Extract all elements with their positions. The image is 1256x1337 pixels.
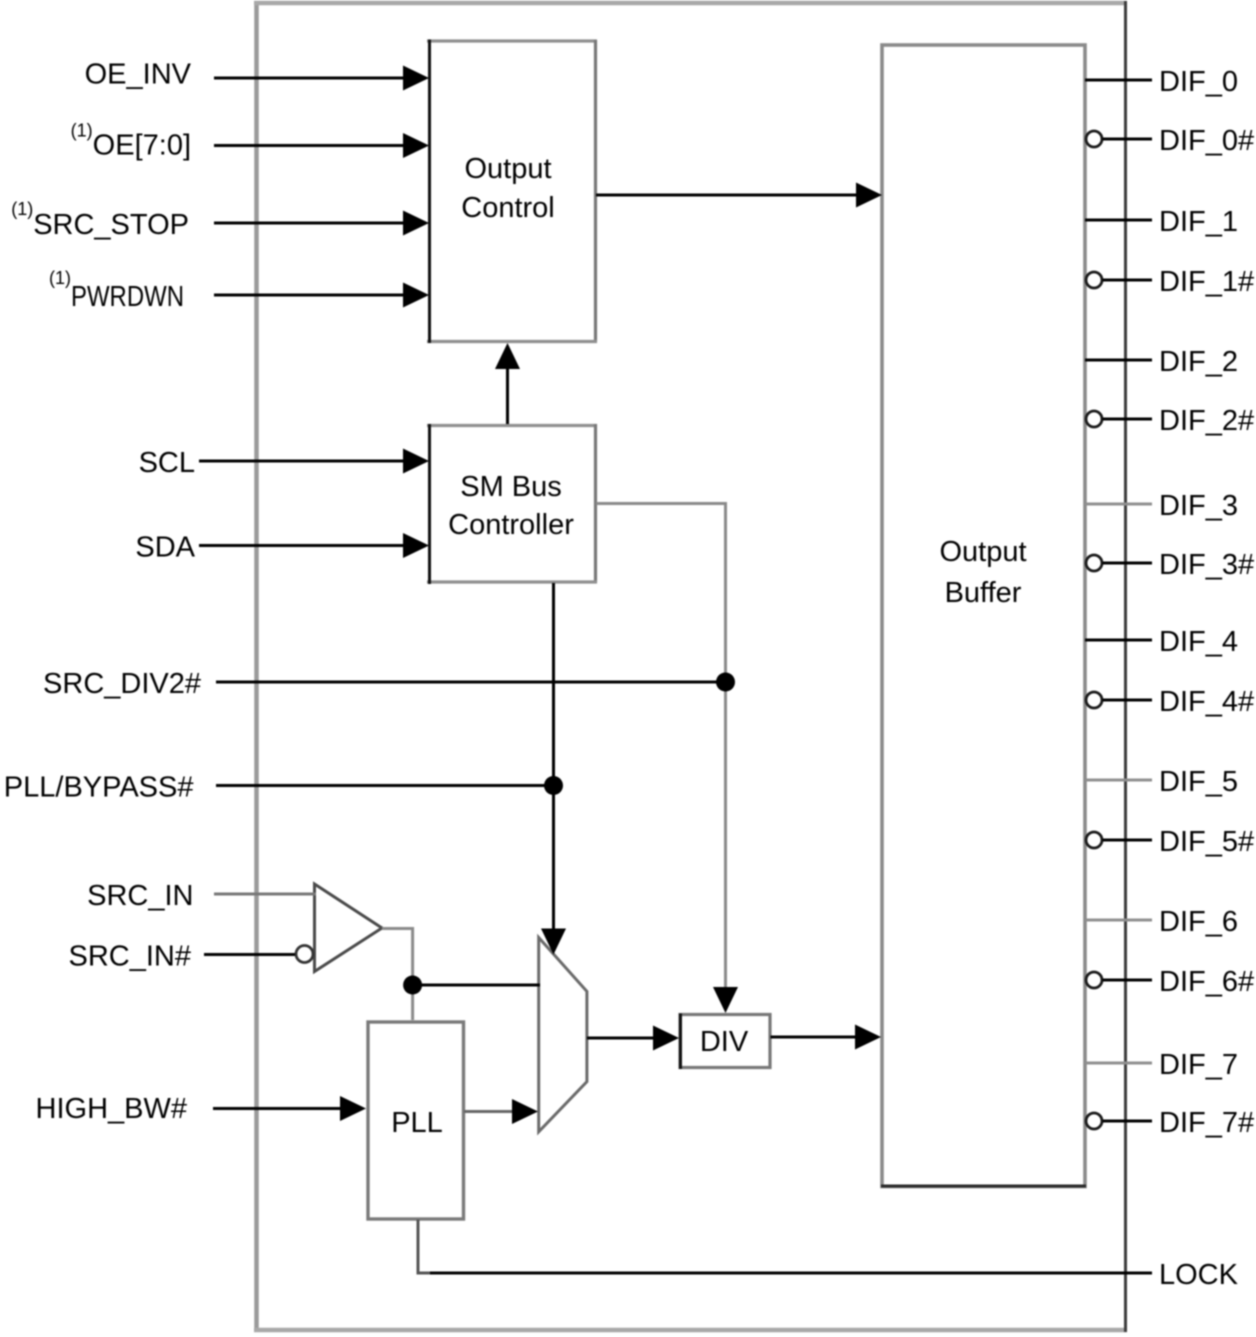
svg-text:DIF_0#: DIF_0# [1159,125,1254,157]
svg-text:OE_INV: OE_INV [85,59,192,91]
svg-text:SRC_DIV2#: SRC_DIV2# [43,668,201,700]
svg-text:DIF_7#: DIF_7# [1159,1107,1254,1139]
svg-text:DIF_5#: DIF_5# [1159,826,1254,858]
svg-text:PLL/BYPASS#: PLL/BYPASS# [4,772,194,804]
svg-text:PLL: PLL [391,1107,443,1139]
svg-text:SM Bus: SM Bus [460,471,562,503]
svg-text:DIF_3#: DIF_3# [1159,549,1254,581]
svg-text:DIF_1: DIF_1 [1159,206,1238,238]
svg-text:SRC_IN: SRC_IN [87,880,193,912]
svg-text:DIF_2: DIF_2 [1159,346,1238,378]
svg-text:SCL: SCL [139,447,195,479]
svg-text:DIF_4#: DIF_4# [1159,686,1254,718]
svg-text:Control: Control [461,192,555,224]
svg-text:DIV: DIV [700,1026,749,1058]
svg-text:DIF_1#: DIF_1# [1159,266,1254,298]
svg-text:DIF_6: DIF_6 [1159,906,1238,938]
svg-text:DIF_3: DIF_3 [1159,490,1238,522]
svg-text:Buffer: Buffer [945,577,1022,609]
svg-text:Output: Output [939,536,1026,568]
svg-text:LOCK: LOCK [1159,1259,1239,1291]
svg-text:DIF_4: DIF_4 [1159,626,1238,658]
svg-text:Output: Output [464,153,551,185]
svg-text:Controller: Controller [448,509,574,541]
svg-text:SDA: SDA [135,532,195,564]
svg-text:HIGH_BW#: HIGH_BW# [36,1093,187,1125]
svg-text:DIF_7: DIF_7 [1159,1049,1238,1081]
svg-text:DIF_2#: DIF_2# [1159,405,1254,437]
svg-text:(1)SRC_STOP: (1)SRC_STOP [11,199,189,241]
svg-text:(1)PWRDWN: (1)PWRDWN [49,268,184,313]
svg-text:DIF_0: DIF_0 [1159,66,1238,98]
svg-text:(1)OE[7:0]: (1)OE[7:0] [71,121,191,162]
svg-text:DIF_5: DIF_5 [1159,766,1238,798]
svg-text:SRC_IN#: SRC_IN# [69,941,192,973]
svg-text:DIF_6#: DIF_6# [1159,966,1254,998]
